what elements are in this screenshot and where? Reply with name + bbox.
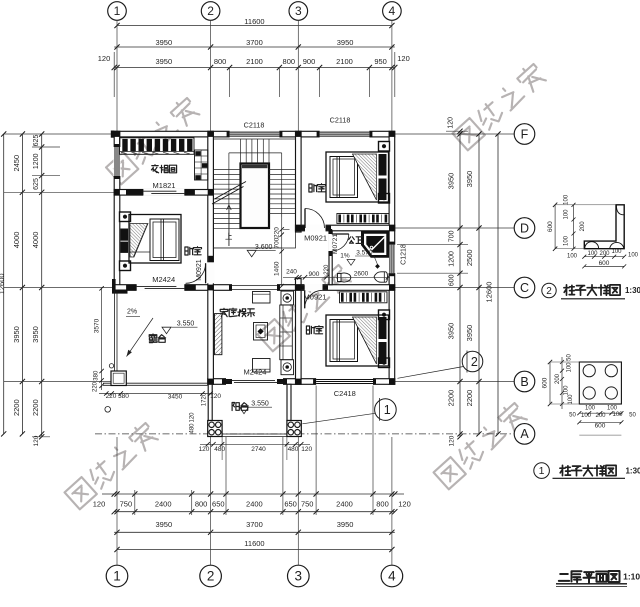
svg-text:1: 1 [113,569,121,584]
column detail 1 dimensions left [549,362,551,404]
svg-text:2%: 2% [127,309,137,316]
grid axis 4 bottom circle [381,565,403,587]
svg-text:700: 700 [274,237,281,248]
interior dim terrace vertical chain 3570/380/220 [101,288,103,390]
svg-text:C1218: C1218 [401,244,408,265]
opening: passage stair hall to family room [232,284,277,291]
cloakroom wardrobe along north wall [120,138,195,155]
label balcony [232,403,248,411]
svg-text:F: F [521,127,529,141]
TV cabinet [215,314,222,355]
svg-text:2600: 2600 [354,270,369,277]
svg-text:3950: 3950 [447,323,456,340]
balcony bottom dim 120/480/2740/480/120 [200,443,310,445]
opening: door M0921 lower bedroom [305,284,323,291]
svg-text:2400: 2400 [336,500,353,509]
grid axis 3 top circle [289,2,308,21]
column mark circle 2 with leader [398,367,464,379]
window C2118 east symbol [320,131,370,133]
svg-text:900: 900 [308,271,319,278]
window C2418 symbol [316,379,373,381]
stair treads right flight [269,169,296,171]
svg-text:800: 800 [214,57,227,66]
svg-text:700: 700 [449,230,456,242]
wall axis C middle part (stair hall south) [213,285,295,291]
grid axis 2 vertical extension [210,20,212,131]
svg-text:2450: 2450 [12,155,21,172]
grid axis A circle [514,424,535,445]
grid axis 1 vertical extension [116,20,118,131]
terrace south railing [103,382,208,384]
opening: door M1821 cloakroom [143,189,184,196]
svg-text:2: 2 [471,355,478,369]
svg-text:M0921: M0921 [304,234,327,243]
svg-text:1460: 1460 [274,261,281,276]
grid axis 1 top circle [108,2,127,21]
staircase outer boundary [213,139,295,248]
svg-text:2400: 2400 [155,500,172,509]
bottom dimension line 11600 [117,549,392,551]
balcony column SE (type 1) [287,421,301,437]
grid axis 2 top circle [201,2,220,21]
door M0721 bathroom swing [332,233,349,235]
grid axis B circle [514,371,535,392]
svg-text:600: 600 [449,274,456,286]
svg-text:800: 800 [195,500,208,509]
label shang (up) [226,233,232,239]
svg-text:650: 650 [284,500,297,509]
svg-text:100: 100 [628,253,639,259]
svg-text:50: 50 [567,354,573,361]
svg-text:1: 1 [384,403,391,417]
svg-text:1:100: 1:100 [623,572,640,582]
svg-text:50: 50 [629,413,636,419]
terrace drain circle 2 [105,407,111,413]
window C2118 west symbol [230,131,280,133]
wall east exterior (axis 4) [389,131,395,384]
svg-text:100: 100 [568,394,574,405]
top dimension line 11600 [117,25,392,27]
svg-text:750: 750 [301,500,314,509]
opening: window C2118 east [320,131,370,138]
grid axis 3 bottom circle [288,565,310,587]
svg-text:3700: 3700 [246,38,263,47]
svg-text:650: 650 [212,500,225,509]
svg-text:100: 100 [564,235,570,246]
svg-text:M2424: M2424 [244,368,267,377]
svg-text:M2424: M2424 [152,275,175,284]
svg-text:100: 100 [564,194,570,205]
grid axis 3 vertical extension [297,20,299,131]
svg-text:120: 120 [449,435,456,446]
svg-text:120: 120 [448,117,455,129]
right chain 120/3950/700/1200/600/3950/2200/120 [459,131,461,437]
opening: window west cloakroom [113,147,120,176]
grid axis 4 vertical extension [391,20,393,131]
svg-text:1:30: 1:30 [625,467,640,476]
jamb blocks door M0921 terrace bedroom [208,256,213,262]
watermark "tuzhi zhijia" 3 [257,263,352,352]
svg-text:2100: 2100 [246,57,263,66]
svg-text:12600: 12600 [485,282,494,303]
svg-text:100: 100 [607,406,618,412]
toilet [337,273,351,282]
corner pilaster step at axis 1/F [111,131,114,138]
stair break line [212,187,244,205]
svg-text:M0921: M0921 [196,259,203,281]
terrace corner column [111,371,126,386]
svg-text:600: 600 [595,423,606,430]
bed SE [326,315,389,366]
svg-text:4: 4 [389,4,396,18]
door M0921 lower bedroom swing [304,290,306,308]
jamb block door M0721 [329,229,332,234]
svg-text:600: 600 [599,260,610,267]
watermark "tuzhi zhijia" 1 [106,96,201,185]
nightstand NE top [379,142,390,152]
svg-text:4: 4 [388,569,396,584]
svg-text:120: 120 [199,446,210,453]
svg-text:4000: 4000 [31,232,40,249]
svg-text:2200: 2200 [12,399,21,416]
svg-text:100: 100 [612,412,623,418]
svg-text:1:30: 1:30 [625,286,640,295]
svg-text:200: 200 [599,251,610,257]
balcony west wall [208,384,212,420]
svg-text:625: 625 [33,178,40,190]
svg-text:2200: 2200 [31,399,40,416]
shower corner unit [362,232,389,258]
grid axis 4 top circle [383,2,402,21]
opening: door M2424 family room to balcony [226,378,283,385]
door M1821 sliding symbol [143,190,176,192]
svg-text:2: 2 [546,286,552,297]
column detail 2 dimensions [554,205,556,249]
left chain 625/1200/625/4000/3950/2200/120 [41,134,43,437]
svg-text:800: 800 [376,500,389,509]
left chain 2450/4000/3950/2200 [21,134,23,434]
svg-text:100: 100 [581,413,592,419]
stair hall lower edge [213,247,281,249]
armchair south [253,359,271,373]
stair treads left flight [213,169,240,171]
svg-text:625: 625 [33,135,40,147]
svg-text:600: 600 [547,221,554,232]
axis A dash-dot line [95,433,514,435]
wall west exterior (axis 1) [114,131,120,290]
watermark "tuzhi zhijia" 2 [452,62,547,151]
watermark "tuzhi zhijia" 4 [64,421,159,510]
svg-text:3950: 3950 [155,57,172,66]
svg-text:D: D [520,221,529,235]
coffee table [254,323,268,341]
wall on axis 3 lower [296,279,302,385]
svg-text:12600: 12600 [0,273,6,294]
grid axis 2 bottom circle [200,565,222,587]
right axis extension lines F D C B [395,133,514,135]
column detail type 2: L-shaped column [584,205,624,249]
svg-text:3.550: 3.550 [251,401,269,408]
stair up arrow [227,205,232,246]
svg-text:3950: 3950 [155,520,172,529]
svg-text:120: 120 [210,393,221,400]
right chain 3950/2500/3950/2200 [478,134,480,434]
jamb blocks M1821 [126,190,143,195]
svg-text:3950: 3950 [31,326,40,343]
svg-text:480: 480 [190,423,196,434]
bottom dimension line 3950/3700/3950 [114,531,395,533]
svg-text:200: 200 [555,373,561,384]
nightstand NE bottom [379,194,390,204]
grid axis D circle [514,218,535,239]
svg-text:M1821: M1821 [153,181,176,190]
svg-text:3950: 3950 [447,173,456,190]
svg-text:2400: 2400 [246,500,263,509]
svg-text:3950: 3950 [337,520,354,529]
jamb blocks door M0921 lower bedroom [301,285,305,290]
right window extension ticks [397,244,468,246]
svg-text:2200: 2200 [447,390,456,407]
column detail type 1: square column with 4 bars [579,362,621,404]
svg-text:120: 120 [98,54,111,63]
svg-text:1200: 1200 [33,153,40,169]
bottom dimension line detail 120/750/2400/800/650/2400/650/750/2400/800/120 [114,511,395,513]
window C1218 symbol [389,245,391,274]
svg-text:3950: 3950 [12,326,21,343]
svg-text:3: 3 [295,4,302,18]
opening: window C2118 west [230,131,280,138]
grid axis F circle [514,124,535,145]
svg-text:950: 950 [374,57,387,66]
stair well top hatched band [242,165,268,168]
nightstand SW bottom [120,261,131,271]
opening: window C2418 [316,378,373,385]
grid axis C circle [514,277,535,298]
svg-text:C: C [520,281,529,295]
terrace west railing [114,290,116,371]
svg-text:1: 1 [539,465,545,477]
svg-text:2500: 2500 [465,249,474,266]
svg-text:200: 200 [580,221,586,232]
svg-text:3700: 3700 [246,520,263,529]
svg-text:2740: 2740 [251,446,266,453]
cloakroom shelf unit east [195,150,208,180]
side table SE corner [281,360,294,375]
label cloakroom [151,165,176,173]
svg-text:800: 800 [283,57,296,66]
top extension lines for window positions [229,68,231,98]
left horizontal extension lines [4,133,115,135]
svg-text:3950: 3950 [465,171,474,188]
svg-text:900: 900 [303,57,316,66]
svg-text:3450: 3450 [168,393,183,400]
svg-text:1720: 1720 [202,392,208,406]
door M2424 family-balcony symbol [226,379,275,381]
svg-text:100: 100 [567,362,573,373]
balcony east wall [287,384,291,420]
svg-text:600: 600 [542,377,549,388]
balcony south railing [222,433,287,435]
label family room [220,308,254,316]
wall on axis 2 (stair west) [208,131,214,384]
svg-text:3: 3 [295,569,303,584]
svg-text:120: 120 [190,412,196,423]
column detail 2 title [542,283,556,297]
label bedroom SE [306,326,323,334]
svg-text:B: B [520,375,528,389]
svg-text:A: A [520,427,529,441]
nightstand SW top [120,212,131,222]
bed NE [326,152,389,202]
svg-text:100: 100 [564,209,570,220]
wall on axis 3 upper [296,131,302,232]
svg-text:100: 100 [585,406,596,412]
stair handrail lines [229,152,282,154]
wardrobe SE bedroom [340,292,388,303]
svg-text:2: 2 [207,4,214,18]
cased opening stair hall to family room [232,285,277,287]
L-shaped column at axis 1/C (type 2) [112,279,128,294]
bottom boundary line [102,493,404,495]
svg-text:220: 220 [106,393,117,400]
door M0921 terrace bedroom swing [205,263,207,283]
svg-text:120: 120 [301,446,312,453]
svg-text:C2118: C2118 [330,116,351,125]
svg-text:1200: 1200 [449,251,456,267]
svg-text:220: 220 [93,381,99,392]
svg-text:3570: 3570 [93,318,100,333]
svg-text:480: 480 [288,446,299,453]
interior dim chain vertical at stair east [281,217,283,286]
column mark circle 1 with leader [302,413,375,424]
svg-text:M0921: M0921 [304,293,327,302]
wardrobe NE bedroom [337,214,389,224]
interior dim terrace horizontal 220/380/3450/1720/120 [99,393,213,395]
svg-text:240: 240 [286,268,297,275]
svg-text:120: 120 [397,54,410,63]
nightstand SE top [379,310,390,320]
opening: door M0921 upper bedroom [305,224,326,231]
opening: door M2424 bedroom to terrace [137,284,185,291]
door M2424 bedroom-terrace symbol [137,285,177,287]
door M0921 upper bedroom swing [304,209,306,229]
svg-text:220: 220 [274,227,281,238]
stair treads top flight [245,139,247,164]
nightstand SE bottom [379,358,390,368]
svg-text:1%: 1% [340,253,350,260]
svg-text:11600: 11600 [244,539,264,548]
left outer chain 12600 [3,134,5,434]
label terrace [149,334,165,343]
svg-text:3.600: 3.600 [255,244,273,251]
column detail 1 title [534,463,550,479]
svg-text:200: 200 [595,413,606,419]
grid axis 4 bottom vertical extension [391,437,393,565]
structural columns (black) at axis intersections [114,131,120,137]
svg-text:1: 1 [114,4,121,18]
interior dim chain horizontal corridor/bath [283,276,390,278]
label bathroom [349,237,363,244]
svg-text:3.570: 3.570 [356,250,373,257]
stair central well [241,164,270,229]
svg-text:3.550: 3.550 [177,321,195,328]
armchair north [253,292,271,304]
grid axis 1 bottom vertical extension [116,437,118,565]
bidet/urinal [374,272,388,282]
wall cloakroom south (axis E) [114,190,213,196]
svg-text:220: 220 [324,264,330,275]
jamb blocks M2424 bedroom-terrace [126,285,137,290]
svg-text:2200: 2200 [465,390,474,407]
drawing title: second floor plan 1:100 [559,571,620,583]
wall bathroom west [329,231,332,285]
svg-text:50: 50 [569,413,576,419]
svg-text:2100: 2100 [336,57,353,66]
grid axis 2 bottom vertical extension [210,437,212,565]
svg-text:3950: 3950 [337,38,354,47]
svg-text:C2118: C2118 [244,121,265,130]
svg-text:100: 100 [567,254,578,260]
wall south of left rooms (axis C west part) [114,285,213,291]
wall on axis D (bedroom south / bath north) [296,225,395,231]
terrace drain circle 1 [109,364,113,368]
balcony column SW (type 1) [208,421,222,437]
wall axis C east part (bedroom north) [296,285,395,291]
svg-text:480: 480 [214,446,225,453]
sofa east [280,305,293,360]
opening: window C1218 [388,245,395,274]
svg-text:100: 100 [611,249,622,255]
top dimension line detail 120/3950/800/2100/800/900/2100/950/120 [114,67,395,69]
side table NE corner [281,291,294,305]
svg-text:C2418: C2418 [334,389,356,398]
window west cloakroom symbol [114,147,116,176]
svg-text:3950: 3950 [465,325,474,342]
wall north exterior (axis F) [114,131,395,137]
svg-text:11600: 11600 [244,17,264,26]
svg-text:100: 100 [564,385,570,396]
opening: door M0921 terrace bedroom [207,262,214,283]
svg-text:3950: 3950 [155,38,172,47]
watermark "tuzhi zhijia" 5 [433,401,528,490]
wall south exterior (axis B) [208,379,395,385]
svg-text:M0721: M0721 [332,234,339,254]
opening: door M0721 bathroom [328,234,333,251]
svg-text:750: 750 [120,500,133,509]
label bedroom NE [309,184,326,192]
svg-text:380: 380 [118,393,129,400]
grid axis 3 bottom vertical extension [297,437,299,565]
svg-text:2: 2 [207,569,215,584]
label bedroom SW [185,247,202,255]
top dimension line 3950/3700/3950 [114,46,395,48]
svg-text:120: 120 [93,500,106,509]
right chain 12600 [497,134,499,434]
svg-text:380: 380 [94,370,100,381]
bottom extension lines [134,490,136,515]
svg-text:120: 120 [398,500,411,509]
grid axis 1 bottom circle [106,565,128,587]
jamb blocks door M2424 family-balcony [222,379,232,384]
jamb blocks door M0921 upper bedroom [301,226,306,231]
svg-text:4000: 4000 [12,232,21,249]
svg-text:100: 100 [587,251,598,257]
bathroom drain [375,264,380,269]
